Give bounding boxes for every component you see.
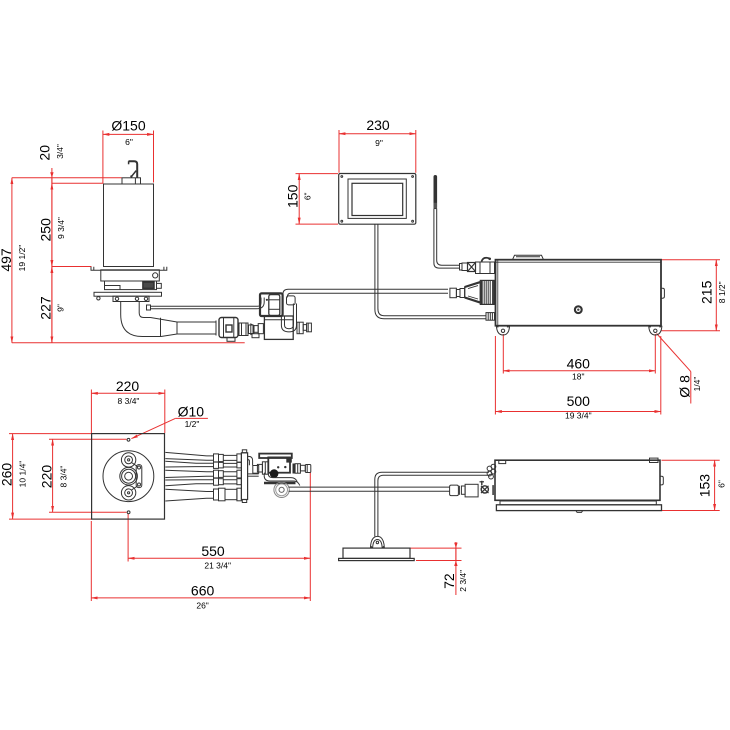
dim 215 line	[715, 260, 717, 331]
unit body	[496, 260, 662, 326]
dim 497 vertical line	[11, 178, 13, 343]
hose elbow up into valve inner	[252, 298, 264, 309]
svg-text:220: 220	[38, 465, 54, 489]
bolt flange under plate	[113, 296, 149, 301]
dim 230 line	[339, 133, 416, 135]
svg-text:215: 215	[699, 280, 715, 304]
hose 3 cone	[165, 470, 206, 477]
top cable connector body	[476, 262, 495, 274]
puck cable vertical outer	[375, 472, 489, 536]
side unit base notch	[576, 511, 583, 513]
panel screen	[352, 183, 403, 215]
svg-text:153: 153	[696, 474, 712, 498]
dim 460 extension right	[654, 334, 656, 374]
svg-text:21 3/4": 21 3/4"	[204, 561, 231, 571]
dim 660 extension left	[90, 521, 92, 601]
dim 220 inner extension bottom	[49, 511, 127, 513]
hose end fitting 2	[465, 484, 478, 497]
svg-text:8 3/4": 8 3/4"	[118, 396, 140, 406]
side unit base plate	[496, 505, 661, 511]
dim 250 bottom reference line y266.5	[52, 266, 92, 268]
dim Ø150 extension left	[102, 131, 104, 184]
dim 220 inner line	[52, 439, 54, 512]
dim Ø150 line	[103, 133, 154, 135]
dim 500 extension right	[660, 336, 662, 415]
dim 260 extension top	[9, 433, 92, 435]
svg-text:230: 230	[366, 117, 390, 133]
bottom porthole	[121, 486, 135, 500]
manifold column 3 fittings	[237, 454, 242, 462]
bolt circles	[97, 297, 100, 300]
puck dome	[370, 536, 384, 548]
mounting plate	[94, 292, 162, 296]
dim 150 extension top	[296, 173, 339, 175]
hose 2 tail	[196, 463, 214, 466]
pump body	[219, 318, 238, 338]
svg-text:497: 497	[0, 248, 14, 272]
big circle	[103, 451, 154, 502]
dim 215 extension bottom	[662, 330, 721, 332]
unit right foot	[649, 326, 662, 335]
pipe joint lines	[160, 318, 162, 337]
pipe taper top	[151, 318, 217, 323]
flange main body	[101, 270, 160, 281]
dim 150 line	[298, 174, 300, 225]
clamp strip under valve	[264, 482, 296, 484]
wheel under valve	[274, 482, 289, 497]
valve U-tube outer	[281, 304, 296, 332]
thin hose tank to valve top line	[151, 305, 254, 307]
panel cable right line	[378, 224, 486, 316]
plate square	[92, 434, 165, 519]
dim 230 extension right	[415, 130, 417, 173]
dim Ø10 underline	[175, 417, 208, 419]
svg-text:19 1/2": 19 1/2"	[17, 245, 27, 272]
hose end bands	[458, 486, 460, 495]
flange dark box	[143, 282, 154, 288]
puck dome center dot	[376, 541, 378, 543]
valve right stub tube	[303, 325, 306, 331]
dim 497 bottom reference line	[12, 342, 245, 344]
valve right stub tube	[300, 465, 305, 471]
tank cylinder	[104, 184, 154, 267]
flange bracket	[91, 267, 167, 270]
down pipe right wall and elbow inner	[139, 302, 150, 318]
dim 660 line	[91, 597, 310, 599]
svg-text:6": 6"	[717, 480, 727, 488]
dim 215 extension top	[662, 259, 721, 261]
dim 260 extension bottom	[9, 518, 92, 520]
fitting taper	[251, 324, 254, 335]
faucet spout	[129, 161, 138, 177]
dim 500 line	[495, 411, 660, 413]
dim Ø8 leader	[657, 334, 691, 372]
valve main body	[268, 457, 290, 472]
dim 72 line	[455, 548, 457, 560]
svg-text:Ø 8: Ø 8	[677, 375, 693, 398]
svg-text:1/4": 1/4"	[692, 377, 702, 392]
manifold column 2 fittings	[219, 454, 224, 461]
top cable connector cylinder	[462, 263, 468, 271]
valve ear fitting	[287, 296, 296, 305]
svg-text:2 3/4": 2 3/4"	[458, 570, 468, 592]
valve right stub nut	[295, 464, 300, 474]
svg-text:20: 20	[37, 145, 53, 161]
svg-text:26": 26"	[196, 601, 208, 611]
pump nut	[226, 325, 232, 332]
puck dome inner	[373, 540, 383, 549]
striped block before unit	[492, 485, 495, 495]
side unit body	[495, 460, 660, 500]
bottom connector nut	[486, 313, 495, 321]
valve right dark C	[293, 464, 296, 474]
pump out cylinder	[239, 323, 248, 336]
bracket right of portholes	[136, 465, 142, 488]
unit right bump	[661, 288, 664, 298]
unit inner left line	[497, 260, 499, 326]
dim Ø10 leader	[132, 418, 176, 438]
dim Ø150 extension right	[153, 131, 155, 183]
antenna rod band	[434, 203, 437, 209]
dim 20/250 reference line y183	[52, 182, 103, 184]
svg-text:250: 250	[38, 218, 54, 242]
side unit top-right bracket	[650, 458, 659, 462]
hose 2 cone	[165, 461, 196, 467]
valve left stack	[257, 464, 262, 472]
svg-text:6": 6"	[303, 192, 313, 200]
under-block tube inner	[268, 473, 297, 482]
middle porthole	[120, 467, 138, 485]
valve right stub nut	[297, 322, 303, 334]
svg-text:Ø10: Ø10	[178, 404, 205, 420]
hose end fitting 1	[450, 485, 459, 496]
dim 220 inner extension top	[49, 438, 127, 440]
dim 153 extension top	[662, 459, 720, 461]
thin hose left fitting	[147, 305, 151, 310]
dim 72 line tail	[455, 542, 457, 595]
dim 460 line	[503, 370, 655, 372]
svg-text:260: 260	[0, 463, 15, 487]
svg-text:9": 9"	[56, 304, 66, 312]
dim 20 top reference line	[12, 177, 122, 179]
dim 550 line	[128, 557, 310, 559]
fitting tube	[254, 326, 258, 333]
side unit base strip	[500, 501, 656, 505]
puck dome clamp right	[381, 545, 384, 548]
unit drain circle	[575, 306, 582, 313]
down pipe left wall and elbow outer	[121, 302, 161, 337]
thin hose tank to valve bottom line	[151, 308, 253, 310]
hose 4 tail	[196, 480, 214, 484]
hose elbow up into valve outer	[253, 298, 261, 307]
top connector lever	[482, 258, 490, 262]
bracket diagonals	[132, 463, 138, 467]
inlet cone	[465, 282, 481, 303]
pipe taper bottom	[161, 334, 216, 337]
svg-text:19 3/4": 19 3/4"	[565, 411, 592, 421]
svg-text:8 1/2": 8 1/2"	[717, 281, 727, 303]
dim 220 top: line	[91, 392, 164, 394]
dim 550 extension left	[127, 514, 129, 562]
svg-text:9 3/4": 9 3/4"	[56, 217, 66, 239]
elbow tube after bar lower	[248, 460, 250, 466]
dim 150 extension bottom	[296, 223, 339, 225]
inlet mid piece	[456, 290, 460, 297]
unit left foot	[496, 326, 509, 335]
dim 460 extension left	[502, 334, 504, 374]
valve body step dark	[286, 458, 292, 463]
elbow nut	[253, 466, 259, 474]
long hose to side unit top line	[289, 486, 450, 488]
faucet base collar	[122, 178, 141, 184]
pump inner lines	[223, 318, 225, 337]
svg-text:6": 6"	[125, 137, 133, 147]
panel cable left line	[375, 224, 486, 319]
side unit top-left bracket	[499, 460, 506, 463]
dim 153 line	[714, 460, 716, 510]
flange right stub	[157, 283, 162, 288]
svg-text:Ø150: Ø150	[111, 117, 145, 133]
hose 5 tail	[207, 492, 214, 499]
svg-text:18": 18"	[572, 372, 584, 382]
unit top handle	[513, 255, 544, 259]
pump bottom tab	[227, 338, 235, 342]
flange right circle	[153, 273, 158, 278]
plate hole bottom	[127, 511, 130, 514]
panel mid frame	[348, 179, 406, 218]
manifold vertical bar	[241, 453, 247, 500]
hose 3 tail	[207, 472, 214, 477]
dim 220 top extension left	[90, 390, 92, 434]
top porthole	[121, 453, 135, 467]
valve block upper frame	[260, 293, 283, 316]
svg-text:10 1/4": 10 1/4"	[18, 461, 28, 488]
fitting bottom nut	[252, 334, 259, 338]
panel outer	[339, 174, 416, 225]
side unit right bump	[660, 476, 663, 485]
main outlet tube upper	[283, 289, 448, 297]
antenna cable outer	[434, 209, 460, 269]
hose 1 cone	[165, 452, 206, 460]
valve dark circle	[270, 469, 279, 478]
plate hole top	[127, 438, 130, 441]
svg-text:460: 460	[567, 356, 591, 372]
main outlet tube lower	[287, 293, 448, 297]
fitting left nut	[258, 324, 263, 334]
svg-text:8 3/4": 8 3/4"	[59, 466, 69, 488]
svg-text:150: 150	[285, 184, 301, 208]
svg-text:1/2": 1/2"	[185, 419, 200, 429]
clamp with pin	[481, 481, 483, 485]
svg-text:9": 9"	[375, 138, 383, 148]
under-block tube outer	[264, 473, 300, 486]
flange lower body	[105, 281, 157, 290]
dim 72 extension bottom	[416, 560, 462, 562]
valve cartridge	[269, 295, 280, 316]
hose 5 cone	[165, 489, 206, 501]
dim chain vertical line x51.9	[51, 168, 53, 343]
top cable connector ring	[460, 264, 463, 271]
dim 220 top extension right	[164, 390, 166, 434]
fitting nut	[249, 325, 254, 334]
dim 260 line	[12, 434, 14, 519]
unit inner top line	[496, 261, 662, 263]
inlet ring	[460, 289, 465, 298]
svg-text:72: 72	[441, 573, 457, 589]
valve lower body	[264, 316, 293, 339]
manifold tubes	[223, 455, 237, 460]
valve dot	[266, 299, 268, 301]
svg-text:227: 227	[38, 296, 54, 320]
inlet fitting rect	[450, 288, 457, 298]
valve body dots	[277, 466, 279, 468]
svg-text:3/4": 3/4"	[55, 144, 65, 159]
elbow tube after bar upper	[248, 456, 253, 465]
antenna cable inner	[437, 209, 460, 266]
faucet lever	[132, 171, 137, 177]
dim 550 extension right	[309, 473, 311, 602]
long hose to side unit bottom line	[289, 490, 450, 492]
multi-pin connector cluster	[487, 466, 492, 471]
dim 230 extension left	[338, 130, 340, 173]
puck bottom flange	[339, 558, 415, 560]
hose 4 cone	[165, 480, 196, 486]
valve right stub cap	[305, 465, 311, 473]
valve right stub cap	[307, 323, 312, 332]
svg-text:500: 500	[567, 393, 591, 409]
dim 72 extension top	[410, 547, 462, 549]
svg-text:220: 220	[116, 378, 140, 394]
valve top cap bar	[259, 454, 292, 458]
inlet striped cylinder	[480, 280, 494, 304]
puck cable vertical inner	[378, 475, 489, 536]
puck body	[343, 548, 410, 558]
antenna rod	[433, 177, 437, 208]
top cable connector X clamp	[468, 263, 476, 272]
puck dome clamp left	[371, 545, 374, 548]
svg-text:660: 660	[191, 583, 215, 599]
panel screws	[341, 176, 343, 178]
dim 153 extension bottom	[662, 510, 720, 512]
manifold column 1 fittings	[214, 454, 219, 462]
dim 500 extension left	[494, 336, 496, 415]
valve U-tube inner	[285, 304, 294, 329]
hose 1 tail	[207, 456, 214, 460]
svg-text:550: 550	[201, 543, 225, 559]
